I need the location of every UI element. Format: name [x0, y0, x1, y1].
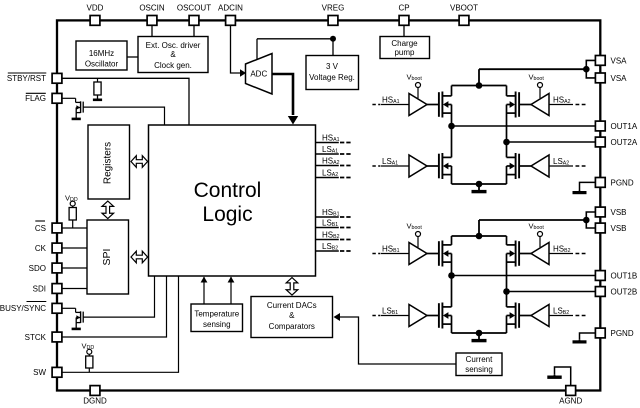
pin VDD [87, 4, 104, 26]
ground at PGND A [573, 182, 596, 192]
signal label HS A2 [549, 96, 586, 106]
arrowhead into Current DACs [334, 313, 341, 321]
overline FLAG [26, 92, 46, 94]
svg-text:OUT1B: OUT1B [611, 272, 638, 281]
ground bridge B [478, 333, 480, 341]
gate driver LS A2 [531, 155, 549, 177]
svg-text:&: & [289, 311, 295, 320]
wire HS B1 drain to rail [451, 236, 453, 245]
bus arrow SPI-Control [131, 251, 148, 263]
svg-text:Charge: Charge [391, 39, 418, 48]
arrowhead ADC output [288, 116, 298, 125]
gate driver LS A1 [409, 155, 427, 177]
wire HS A1 source to OUT node [451, 105, 453, 127]
junction top rail bridge A [476, 82, 483, 89]
svg-text:ADC: ADC [250, 70, 267, 79]
pin CP [398, 4, 409, 26]
svg-text:FLAG: FLAG [25, 94, 46, 103]
pin OUT2B [595, 287, 637, 297]
wire VREG to ADC reference [257, 39, 333, 56]
block Control Logic [149, 125, 316, 276]
svg-text:3 V: 3 V [326, 62, 339, 71]
pull-down resistor on STBY/RST [94, 78, 101, 95]
svg-text:Clock gen.: Clock gen. [154, 61, 192, 70]
wire OSCIN to Ext. Osc. box [151, 25, 153, 37]
block Charge pump [380, 37, 430, 59]
power MOSFET LS B2 [507, 303, 532, 329]
pin AGND [559, 386, 582, 406]
wire SW to Control Logic [62, 276, 179, 372]
wire HS A1 drain to rail [451, 86, 453, 96]
pin OUT1B [595, 271, 637, 281]
svg-text:Ext. Osc. driver: Ext. Osc. driver [146, 41, 201, 50]
pin OSCIN [139, 4, 165, 26]
svg-text:Oscillator: Oscillator [85, 60, 119, 69]
control output HS A2 [316, 157, 351, 167]
bus arrow Control-Current DACs [286, 278, 298, 296]
VSA feed wire [479, 68, 586, 70]
control output LS A1 [316, 145, 351, 155]
wire HS B2 source to OUT node [506, 254, 508, 292]
control output HS A1 [316, 134, 351, 144]
svg-text:SPI: SPI [101, 249, 113, 266]
svg-text:OUT2A: OUT2A [611, 138, 638, 147]
svg-text:OUT2B: OUT2B [611, 288, 638, 297]
block Current DACs and Comparators [251, 297, 333, 338]
svg-text:PGND: PGND [611, 178, 634, 187]
ground bridge A [478, 184, 480, 192]
wire SDI to SPI [62, 288, 87, 290]
control output HS B2 [316, 231, 351, 241]
junction top rail bridge B [476, 233, 483, 240]
VSB feed wire [479, 219, 586, 221]
svg-text:sensing: sensing [465, 365, 493, 374]
pin OSCOUT [177, 4, 211, 26]
svg-text:VBOOT: VBOOT [450, 4, 478, 13]
svg-text:Logic: Logic [202, 203, 252, 226]
junction OUT2B node [503, 288, 510, 295]
signal label LS A1 [372, 157, 409, 167]
svg-text:CS: CS [35, 224, 46, 233]
wire LS B1 drain to OUT node [451, 276, 453, 307]
pin VREG [322, 4, 345, 26]
svg-text:VSB: VSB [611, 224, 627, 233]
svg-text:OSCOUT: OSCOUT [177, 4, 211, 13]
svg-text:AGND: AGND [559, 397, 582, 406]
wire OUT2A [507, 141, 596, 143]
overline SYNC [27, 301, 47, 303]
wire top rail bridge B [452, 235, 507, 237]
svg-text:Comparators: Comparators [269, 322, 315, 331]
gate driver HS B2 [531, 243, 549, 265]
pin SW [33, 367, 62, 377]
pin STBY/RST [7, 73, 62, 83]
ground at AGND [547, 367, 570, 386]
wire OUT1B [452, 275, 596, 277]
svg-text:STCK: STCK [25, 333, 47, 342]
pin CK [35, 243, 62, 253]
wire LS A2 source to bottom rail [506, 166, 508, 184]
control output LS B2 [316, 242, 351, 252]
wire ADCIN to ADC input [231, 25, 241, 73]
svg-text:CK: CK [35, 244, 47, 253]
arrowhead into ADC [240, 69, 246, 77]
block Ext. Osc. driver and Clock gen. [138, 37, 208, 73]
overline CS [35, 220, 45, 222]
svg-text:PGND: PGND [611, 329, 634, 338]
wire Temperature sensing to Control Logic (right) [230, 277, 232, 304]
svg-text:VREG: VREG [322, 4, 345, 13]
power MOSFET LS B1 [427, 303, 452, 329]
ground at STBY/RST resistor [97, 95, 99, 100]
svg-text:SDO: SDO [29, 264, 46, 273]
ADC converter U-ADC [246, 54, 273, 95]
pin PGND [595, 328, 633, 338]
arrowhead temp left [201, 277, 208, 283]
pin ADCIN [218, 4, 243, 26]
pull-up resistor with VDD on CS [65, 194, 78, 229]
pull-up resistor with VDD on SW [82, 342, 95, 373]
junction bottom rail bridge A [476, 181, 483, 188]
svg-text:STBY/RST: STBY/RST [7, 74, 46, 83]
pin OUT1A [595, 121, 637, 131]
junction OUT2A node [503, 139, 510, 146]
wire STCK to Control Logic [62, 276, 167, 337]
power MOSFET HS B2 [507, 241, 532, 267]
pin OUT2A [595, 137, 637, 147]
junction OUT1B node [448, 272, 455, 279]
wire bottom rail bridge B [452, 332, 507, 334]
svg-text:BUSY/SYNC: BUSY/SYNC [0, 304, 46, 313]
pin VSB [595, 207, 626, 217]
svg-text:OUT1A: OUT1A [611, 122, 638, 131]
wire HS A2 source to OUT node [506, 105, 508, 143]
pin FLAG [25, 93, 62, 103]
Vboot supply HS A2 [529, 73, 545, 99]
signal label HS B2 [549, 245, 586, 255]
wire CP to Charge pump [403, 25, 405, 37]
signal label LS B2 [549, 307, 586, 317]
pin VSB [595, 223, 626, 233]
open-drain transistor FLAG [62, 98, 83, 117]
gate driver HS A1 [409, 94, 427, 116]
wire SDO to SPI [62, 267, 87, 269]
wire LS A2 drain to OUT node [506, 142, 508, 157]
wire HS A2 drain to rail [506, 86, 508, 96]
power MOSFET LS A2 [507, 153, 532, 179]
bus arrow Registers-SPI [102, 201, 114, 219]
svg-text:16MHz: 16MHz [89, 49, 114, 58]
svg-text:Registers: Registers [103, 142, 114, 184]
Vboot supply HS B1 [407, 222, 423, 248]
junction bottom rail bridge B [476, 330, 483, 337]
pin VBOOT [450, 4, 478, 26]
junction VSB node [583, 217, 590, 224]
pin SDO [29, 263, 62, 273]
signal label LS B1 [372, 307, 409, 317]
svg-text:VSB: VSB [611, 208, 627, 217]
block Temperature sensing [191, 304, 243, 332]
svg-text:SW: SW [33, 368, 46, 377]
wire OUT1A [452, 125, 596, 127]
wire Temperature sensing to Control Logic (left) [203, 277, 205, 304]
chip outline [57, 20, 600, 390]
svg-text:OSCIN: OSCIN [139, 4, 165, 13]
ground at BUSY/SYNC source [75, 328, 77, 329]
Vboot supply HS A1 [407, 73, 423, 99]
wire LS B1 source to bottom rail [451, 316, 453, 334]
wire CK to SPI [62, 247, 87, 249]
signal label LS A2 [549, 157, 586, 167]
pin VSA [595, 73, 627, 83]
power MOSFET HS A1 [427, 92, 452, 118]
wire CS to SPI [62, 227, 87, 229]
svg-text:Voltage Reg.: Voltage Reg. [309, 73, 355, 82]
open-drain transistor BUSY/SYNC [62, 308, 83, 327]
wire HS B1 source to OUT node [451, 254, 453, 276]
svg-text:CP: CP [398, 4, 409, 13]
svg-text:VSA: VSA [611, 74, 628, 83]
wire LS B2 source to bottom rail [506, 316, 508, 334]
wire oscillator to Ext. Osc. box [127, 56, 138, 58]
power MOSFET HS B1 [427, 241, 452, 267]
svg-text:ADCIN: ADCIN [218, 4, 243, 13]
svg-text:pump: pump [394, 48, 415, 57]
wire OUT2B [507, 291, 596, 293]
pin DGND [83, 386, 107, 406]
wire HS B2 drain to rail [506, 236, 508, 245]
bus arrow Registers-Control [131, 156, 148, 168]
signal label HS B1 [372, 245, 409, 255]
ground at PGND B [573, 333, 596, 342]
svg-text:VSA: VSA [611, 56, 628, 65]
control output LS A2 [316, 169, 351, 179]
gate driver LS B1 [409, 305, 427, 327]
block Current sensing [456, 353, 502, 376]
svg-text:Current DACs: Current DACs [267, 301, 317, 310]
pin VSA [595, 56, 627, 66]
pin BUSY/SYNC [0, 303, 62, 313]
svg-text:Control: Control [194, 179, 262, 202]
gate driver LS B2 [531, 305, 549, 327]
wire bottom rail bridge A [452, 183, 507, 185]
arrowhead temp right [228, 277, 235, 283]
power MOSFET HS A2 [507, 92, 532, 118]
svg-text:VDD: VDD [87, 4, 104, 13]
junction VREG node [330, 36, 336, 42]
wire FLAG gate to Control Logic [83, 107, 164, 125]
Vboot supply HS B2 [529, 222, 545, 248]
gate driver HS A2 [531, 94, 549, 116]
wire BUSY/SYNC gate to Control Logic [83, 276, 154, 317]
signal label HS A1 [372, 96, 409, 106]
junction VSA node [583, 66, 590, 73]
overline STBY/RST [8, 72, 47, 74]
svg-text:Temperature: Temperature [194, 309, 239, 318]
VSB pin bracket [586, 212, 595, 228]
svg-text:&: & [170, 50, 176, 59]
gate driver HS B1 [409, 243, 427, 265]
pin CS [35, 223, 62, 233]
block 3V Voltage Regulator [306, 56, 359, 90]
wire LS B2 drain to OUT node [506, 292, 508, 307]
ground at FLAG source [75, 118, 77, 119]
wire LS A1 drain to OUT node [451, 126, 453, 157]
wire ADC output to Control Logic [272, 74, 293, 115]
wire STBY/RST to Control Logic [62, 78, 189, 125]
wire Current sensing to Current DACs [339, 317, 456, 364]
svg-text:sensing: sensing [203, 320, 231, 329]
block Registers [88, 125, 130, 199]
svg-text:DGND: DGND [83, 397, 107, 406]
VSA pin bracket [586, 60, 595, 78]
pin PGND [595, 178, 633, 188]
wire top rail bridge A [452, 85, 507, 87]
block SPI [87, 220, 129, 294]
svg-text:SDI: SDI [33, 284, 46, 293]
control output LS B1 [316, 219, 351, 229]
power MOSFET LS A1 [427, 153, 452, 179]
wire OSCOUT to Ext. Osc. box [193, 25, 195, 37]
pin SDI [33, 284, 62, 294]
svg-text:Current: Current [466, 355, 493, 364]
control output HS B1 [316, 208, 351, 218]
pin STCK [25, 332, 62, 342]
junction OUT1A node [448, 123, 455, 130]
block 16MHz Oscillator [76, 41, 127, 70]
wire LS A1 source to bottom rail [451, 166, 453, 184]
